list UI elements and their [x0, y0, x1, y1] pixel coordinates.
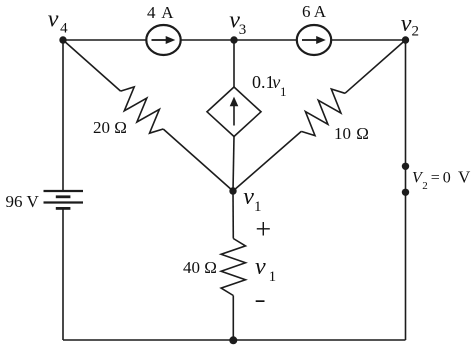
svg-text:0.1: 0.1: [252, 72, 275, 92]
svg-text:1: 1: [254, 199, 262, 215]
svg-text:1: 1: [280, 84, 287, 99]
svg-text:Ω: Ω: [356, 124, 369, 143]
svg-text:v: v: [255, 254, 266, 280]
svg-text:0: 0: [443, 170, 451, 187]
svg-text:4: 4: [60, 20, 68, 36]
svg-text:3: 3: [239, 22, 247, 38]
svg-text:=: =: [431, 170, 440, 187]
svg-text:10: 10: [334, 124, 351, 143]
svg-text:v: v: [48, 6, 59, 32]
svg-text:2: 2: [422, 180, 428, 192]
svg-text:A: A: [161, 3, 174, 22]
svg-text:96 V: 96 V: [6, 192, 40, 211]
svg-text:40 Ω: 40 Ω: [183, 258, 217, 277]
svg-text:4: 4: [147, 3, 156, 22]
svg-text:6: 6: [302, 2, 311, 21]
svg-text:1: 1: [269, 269, 277, 285]
svg-text:V: V: [458, 168, 471, 187]
svg-text:+: +: [255, 215, 271, 246]
svg-text:v: v: [243, 184, 254, 210]
svg-text:v: v: [272, 72, 280, 92]
svg-text:v: v: [401, 11, 412, 37]
svg-text:20 Ω: 20 Ω: [93, 118, 127, 137]
svg-text:2: 2: [412, 24, 420, 40]
svg-text:A: A: [314, 2, 327, 21]
